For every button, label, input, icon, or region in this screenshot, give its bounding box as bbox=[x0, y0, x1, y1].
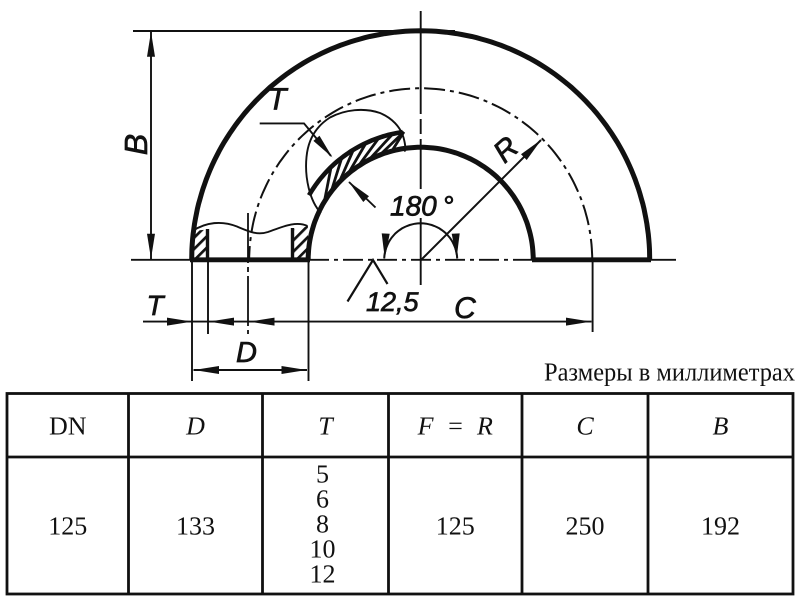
svg-text:D: D bbox=[185, 411, 205, 440]
svg-text:125: 125 bbox=[436, 512, 475, 541]
svg-text:133: 133 bbox=[176, 512, 215, 541]
svg-text:F = R: F = R bbox=[417, 411, 493, 440]
svg-text:DN: DN bbox=[49, 411, 87, 440]
svg-text:192: 192 bbox=[701, 512, 740, 541]
svg-text:12: 12 bbox=[310, 560, 336, 589]
svg-text:180 °: 180 ° bbox=[390, 191, 454, 222]
svg-text:250: 250 bbox=[566, 512, 605, 541]
svg-text:T: T bbox=[146, 290, 165, 321]
svg-text:T: T bbox=[318, 411, 334, 440]
svg-text:T: T bbox=[268, 82, 289, 117]
svg-text:D: D bbox=[236, 337, 257, 369]
svg-text:B: B bbox=[118, 134, 154, 155]
svg-text:C: C bbox=[576, 411, 594, 440]
svg-text:Размеры в миллиметрах: Размеры в миллиметрах bbox=[544, 358, 795, 387]
svg-text:125: 125 bbox=[48, 512, 87, 541]
svg-text:12,5: 12,5 bbox=[366, 287, 420, 317]
svg-text:B: B bbox=[713, 411, 729, 440]
svg-text:C: C bbox=[454, 292, 476, 325]
